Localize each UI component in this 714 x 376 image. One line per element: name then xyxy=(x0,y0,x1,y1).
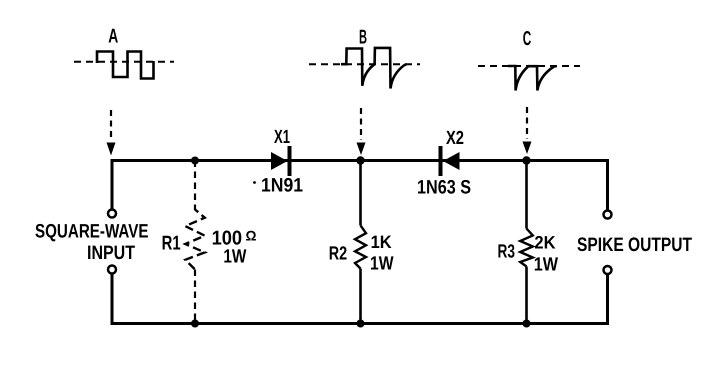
wire R2 vertical lower xyxy=(359,269,362,324)
waveform A baseline xyxy=(74,61,174,63)
svg-text:R3: R3 xyxy=(498,241,516,262)
svg-text:B: B xyxy=(359,26,367,48)
wire R2 vertical upper xyxy=(359,161,362,226)
diode X2 1N63S xyxy=(439,146,443,176)
junction node R1 bottom xyxy=(191,320,199,328)
svg-text:A: A xyxy=(108,26,118,48)
svg-text:Ω: Ω xyxy=(246,228,257,244)
resistor R2 zigzag body xyxy=(355,225,366,268)
svg-text:R2: R2 xyxy=(329,244,347,265)
wire left vertical lower xyxy=(111,274,114,326)
svg-text:C: C xyxy=(523,28,532,50)
waveform B partially-differentiated trace xyxy=(341,48,407,89)
junction node C top xyxy=(522,156,530,164)
wire bottom rail xyxy=(112,322,608,325)
dashed arrow from waveform B to node B xyxy=(360,108,362,140)
output terminal lower circle xyxy=(604,266,612,274)
waveform C spike trace xyxy=(508,66,557,91)
svg-text:1W: 1W xyxy=(370,254,394,275)
wire R3 vertical upper xyxy=(525,161,528,229)
svg-text:2K: 2K xyxy=(534,233,555,253)
svg-text:X2: X2 xyxy=(446,128,464,149)
svg-text:SPIKE OUTPUT: SPIKE OUTPUT xyxy=(577,234,692,256)
diode X1 1N91 xyxy=(271,152,288,170)
svg-text:1N91: 1N91 xyxy=(261,175,303,197)
wire output vertical lower xyxy=(606,274,609,325)
wire output vertical upper xyxy=(606,159,609,211)
waveform C baseline xyxy=(478,65,580,67)
junction node B top xyxy=(356,156,364,164)
svg-text:SQUARE-WAVE: SQUARE-WAVE xyxy=(35,221,149,243)
wire R3 vertical lower xyxy=(525,267,528,324)
dashed arrow from waveform A to input node xyxy=(110,110,112,140)
svg-text:X1: X1 xyxy=(274,127,290,148)
output terminal upper circle xyxy=(604,211,612,219)
resistor R3 zigzag body xyxy=(520,229,533,267)
input terminal lower circle xyxy=(108,266,116,274)
svg-text:1W: 1W xyxy=(534,255,558,276)
svg-text:R1: R1 xyxy=(162,232,181,254)
junction node R1 top xyxy=(191,157,199,165)
svg-text:1K: 1K xyxy=(371,232,392,252)
resistor R1 (dashed) top lead xyxy=(194,161,196,211)
wire left vertical upper xyxy=(111,159,114,210)
input terminal upper circle xyxy=(108,210,116,218)
waveform A square-wave trace xyxy=(97,52,154,79)
wire top rail xyxy=(112,159,608,162)
svg-text:1N63 S: 1N63 S xyxy=(417,176,471,198)
svg-text:INPUT: INPUT xyxy=(87,242,135,264)
dashed arrow from waveform C to node C xyxy=(526,107,528,139)
junction node R2 bottom xyxy=(357,320,365,328)
waveform B baseline xyxy=(309,63,420,65)
resistor R1 bottom lead xyxy=(194,270,196,324)
junction node R3 bottom xyxy=(523,320,531,328)
resistor R1 zigzag body xyxy=(185,210,205,270)
svg-text:1W: 1W xyxy=(223,247,246,268)
